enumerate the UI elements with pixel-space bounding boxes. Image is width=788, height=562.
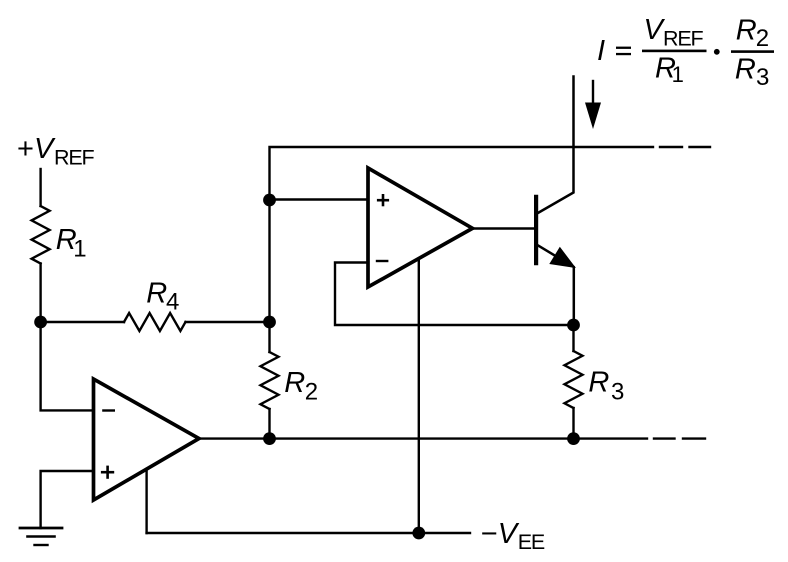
wire U2 output line (bottom rail) — [199, 437, 647, 439]
resistor R2 — [261, 352, 279, 409]
wire U1 inverting input feedback to emitter node — [335, 263, 574, 326]
node E (U1 + input tap) — [263, 194, 276, 207]
wire R4 to node B — [186, 321, 270, 323]
svg-text:2: 2 — [756, 25, 769, 52]
eq equals — [616, 47, 631, 49]
node D (R3 bottom on output line) — [567, 432, 580, 445]
resistor R2 leads — [268, 322, 270, 352]
node F (emitter / feedback / R3 top) — [567, 319, 580, 332]
eq fraction bar 1 — [642, 50, 707, 53]
label R1 — [56, 224, 87, 263]
wire node A to R4 — [41, 321, 124, 323]
svg-text:R: R — [284, 367, 305, 399]
label -VEE — [481, 518, 545, 554]
bottom rail dashes — [654, 437, 675, 439]
resistor R1 — [32, 206, 50, 264]
wire U2 non-inverting input to ground — [41, 471, 94, 528]
svg-text:R: R — [146, 278, 167, 310]
resistor R3 leads — [572, 325, 574, 351]
label R4 — [146, 278, 179, 316]
wire R1 to node A — [39, 264, 41, 323]
op-amp U1 — [368, 168, 473, 287]
node B (junction R4/R2/riser) — [263, 316, 276, 329]
wire node A down to op-amp U2 inverting input — [41, 322, 94, 410]
transistor Q1 collector — [537, 77, 574, 214]
eq multiply dot — [714, 49, 720, 55]
ground — [20, 528, 62, 545]
svg-text:−V: −V — [481, 518, 520, 550]
U2 minus sign — [102, 409, 115, 411]
svg-text:R: R — [735, 54, 756, 86]
wire +VREF lead — [39, 169, 41, 206]
node VEE junction — [412, 527, 425, 540]
svg-text:R: R — [588, 367, 609, 399]
svg-text:REF: REF — [54, 145, 94, 169]
svg-text:1: 1 — [672, 62, 684, 87]
eq fraction bar 2 — [731, 50, 774, 53]
svg-text:I: I — [597, 35, 605, 67]
U2 plus sign — [101, 466, 114, 479]
label +VREF — [17, 133, 94, 169]
wire node E to U1 non-inverting input — [270, 198, 369, 200]
U1 minus sign — [376, 260, 389, 262]
svg-text:+V: +V — [17, 133, 56, 165]
transistor Q1 emitter — [537, 245, 574, 325]
resistor R4 — [124, 313, 186, 331]
current arrow I — [592, 81, 594, 108]
wire U1 output to transistor base — [473, 227, 534, 229]
svg-text:4: 4 — [166, 289, 179, 316]
transistor Q1 emitter arrowhead — [551, 248, 575, 267]
U1 plus sign — [377, 194, 389, 206]
svg-text:REF: REF — [663, 26, 703, 50]
svg-text:3: 3 — [756, 64, 769, 91]
svg-text:2: 2 — [305, 378, 318, 405]
resistor R3 — [565, 351, 583, 408]
wire -VEE rail — [147, 532, 470, 534]
wire U2 negative supply pin to -VEE rail — [145, 469, 147, 533]
svg-text:R: R — [736, 14, 757, 46]
node C (R2 bottom on output line) — [263, 432, 276, 445]
transistor Q1 base bar — [534, 197, 538, 263]
op-amp U2 — [94, 379, 200, 500]
node A (junction R1/R4) — [34, 316, 47, 329]
label R2 — [284, 367, 318, 405]
svg-text:EE: EE — [518, 530, 545, 554]
svg-text:1: 1 — [73, 236, 86, 263]
top rail dashes — [660, 146, 682, 148]
wire U1 negative supply pin down to VEE node — [418, 259, 420, 534]
label R3 — [588, 367, 624, 406]
equation I = VREF/R1 . R2/R3 — [597, 14, 774, 91]
svg-text:3: 3 — [611, 379, 624, 406]
wire left riser and top rail — [270, 147, 654, 322]
